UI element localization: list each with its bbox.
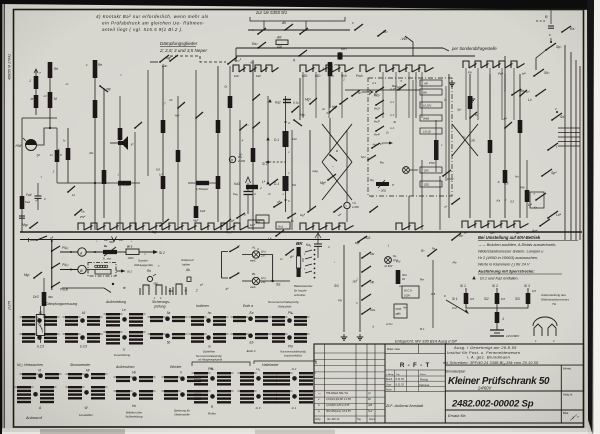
wire right channel 5 — [519, 74, 521, 218]
microphone M — [26, 140, 37, 151]
switch slash 240t — [239, 129, 241, 131]
switch Ra2 top — [257, 47, 259, 49]
switch Lo3 ladder — [533, 75, 535, 77]
contact group P — [194, 372, 208, 374]
wire zur-Ue bracket — [250, 17, 345, 21]
switch Ba2 top — [169, 60, 171, 62]
resistor Si2 — [495, 293, 500, 304]
meter W — [78, 265, 86, 273]
ground mid chain2 — [359, 334, 361, 337]
switch L4 mid2 — [275, 235, 277, 237]
node left 95 — [94, 182, 96, 184]
box WC6 — [402, 286, 419, 298]
resistor h 125 — [118, 181, 131, 185]
box Nu1 — [256, 215, 269, 223]
resistor 163 b — [161, 176, 166, 189]
resistor 10,15V — [420, 102, 442, 108]
lamp relay box — [403, 167, 410, 174]
bracket PNr — [192, 362, 250, 366]
jack symbol Ab — [176, 284, 182, 295]
wire lamp AL link — [242, 254, 252, 256]
wire right channel 1 — [448, 74, 450, 218]
switch chain mid 2 — [361, 271, 363, 273]
wire vert 230b — [229, 66, 231, 230]
node rail joint — [51, 240, 53, 242]
contact group R rufen — [194, 390, 208, 392]
switch q top — [298, 55, 300, 57]
switch bg2 — [159, 61, 161, 63]
wire top right link — [536, 20, 545, 22]
contact group Hs — [240, 372, 254, 374]
contact group b2/b2,5 — [22, 316, 35, 318]
jack comb row right — [462, 221, 468, 228]
switch slash 196t — [195, 117, 197, 119]
contact group iso — [191, 316, 204, 318]
arrow ka4 up — [315, 233, 321, 238]
resistor M left — [48, 92, 53, 108]
switch A2 mid — [329, 111, 331, 113]
resistor 253 — [251, 148, 256, 162]
wire left vert 104 — [103, 88, 105, 218]
contact group Vt — [22, 373, 36, 375]
arrow left col top — [34, 69, 38, 73]
battery BK contacts — [314, 249, 316, 251]
switch Hs1² — [375, 91, 377, 93]
switch slash 310t — [309, 103, 311, 105]
wire speaker link — [110, 142, 118, 144]
wire si bottom bus — [466, 304, 528, 308]
contact group Ir — [164, 376, 178, 378]
switch Ra4 topright — [561, 31, 563, 33]
ground right jack — [451, 80, 453, 83]
switch A4 mid — [285, 254, 287, 256]
switch R3 mid — [427, 255, 429, 257]
resistor right ch a — [468, 96, 473, 109]
switch slash 470t — [469, 117, 471, 119]
wire vert 292 — [291, 130, 293, 230]
wire vert 68 — [67, 128, 69, 183]
resistor 120a — [118, 128, 123, 140]
resistor left2 — [34, 95, 39, 108]
wire right jack drops — [465, 68, 467, 120]
switch Hue2 — [357, 241, 359, 243]
tube symbol — [534, 324, 542, 336]
switch PN II — [52, 263, 60, 268]
wire pnk — [435, 120, 437, 140]
jack symbol Ro b — [156, 285, 162, 295]
wire left long vert 163 — [162, 66, 164, 222]
jack row far combs — [463, 61, 469, 68]
arrow 6-1 — [446, 300, 468, 313]
capacitor Fa4 — [35, 195, 42, 197]
resistor 163 a — [161, 120, 166, 133]
contact group H2 — [276, 372, 290, 374]
node b chain — [285, 199, 287, 201]
top right cap B — [548, 25, 554, 27]
switch A1 253 — [252, 127, 254, 129]
switch mid 452b — [451, 203, 453, 205]
switch Li2 ladder — [535, 95, 537, 97]
wire X-cross mid b2 — [322, 162, 352, 200]
resistor Dr3 — [42, 292, 47, 306]
resistor 218 a — [216, 120, 221, 133]
wire vert 310 — [309, 130, 311, 210]
switch mid 370 — [369, 211, 371, 213]
resistor right 517 — [518, 120, 523, 133]
wire secondary bus — [20, 239, 330, 241]
contact group W stromw — [68, 386, 82, 388]
wire vert 409 — [408, 196, 410, 230]
wire fa4 — [37, 183, 39, 196]
node d chain — [285, 121, 287, 123]
wire vert 253 — [252, 60, 254, 230]
wire si1 drop — [465, 288, 467, 293]
switch Mg2b — [33, 277, 35, 279]
resistor Si3 — [526, 293, 531, 304]
wire left mid drop2 — [94, 118, 96, 230]
switch chain mid 1 — [361, 257, 363, 259]
wire top bus 2 — [236, 47, 443, 49]
note 60V line7 — [472, 276, 475, 279]
wire vert 240 — [239, 120, 241, 230]
resistor Nu1 mid — [276, 222, 290, 229]
resistor J7 left — [34, 76, 39, 89]
contact group PNa — [272, 316, 285, 318]
wire vert 347b — [346, 130, 348, 202]
switch Sp4 ladder — [541, 175, 543, 177]
switch Ah top — [284, 29, 286, 31]
contact group b3/b3,5 — [65, 316, 78, 318]
resistor right ch b — [488, 140, 493, 153]
wire mic link — [37, 128, 58, 145]
switch 135 — [134, 127, 136, 129]
wire vert 196 — [195, 70, 197, 206]
wire vert 148 — [147, 70, 149, 176]
jack comb row left — [78, 223, 84, 230]
switch fv2 — [351, 95, 353, 97]
wire vert 440 — [439, 176, 441, 230]
wire left col top — [35, 70, 37, 115]
lamp BL — [252, 277, 259, 284]
wire X-cross mid a1 — [322, 124, 352, 162]
resistor W5 left — [36, 315, 45, 336]
switch BI2 top — [377, 35, 379, 37]
resistor Re left — [48, 62, 53, 78]
wire ladder stub fan — [558, 127, 580, 129]
jack Pn4 comb — [360, 65, 366, 72]
resistor Fa5 comb — [194, 206, 199, 218]
wire meter W link — [60, 269, 78, 271]
capacitor Ka2 tri — [268, 99, 271, 102]
resistor bar left mid — [93, 60, 98, 78]
resistor 1/9,1Ω — [420, 128, 442, 134]
resistor Ka3 h — [246, 185, 258, 189]
wire left h link — [57, 182, 110, 184]
wire right channel 4 — [504, 74, 506, 218]
jack row M3/M2/W4 combs — [300, 65, 306, 72]
switch 68b — [67, 191, 69, 193]
wire vert 416 — [415, 72, 417, 118]
jack symbol Ro a — [147, 276, 152, 281]
capacitor Ka4 left — [244, 191, 253, 193]
wire vert 300 — [299, 78, 301, 120]
wire jack drops mid — [302, 72, 304, 118]
battery BK bar — [297, 247, 301, 256]
switch R mid — [329, 154, 331, 156]
wire Dr3 — [43, 278, 45, 292]
resistor Fa6 left — [55, 150, 60, 162]
resistor J mid — [328, 62, 333, 76]
switch slash 178t — [177, 107, 179, 109]
switch aI lamp — [229, 277, 231, 279]
contact group H3 — [240, 390, 254, 392]
table middle grid — [385, 353, 445, 355]
switch Ax4 ladder — [539, 225, 541, 227]
contact group 5a/5b — [150, 316, 163, 318]
resistor 4 vert — [495, 312, 500, 323]
wire si cap drop — [496, 323, 498, 330]
wire main bus — [20, 231, 582, 233]
contact group Hb — [116, 376, 130, 378]
resistor 218 b — [216, 176, 221, 189]
switch PNg2 — [442, 175, 444, 177]
table revision grid — [314, 344, 584, 423]
switch b25 bot — [221, 225, 223, 227]
wire pn3 line — [62, 287, 104, 289]
table right grid — [444, 344, 446, 423]
resistor 20A — [420, 167, 442, 173]
resistor (NW) — [420, 115, 442, 121]
photo edge right band — [587, 0, 594, 434]
capacitor left edge — [19, 215, 25, 217]
switch chain mid 4 — [361, 299, 363, 301]
wire relay box col — [412, 80, 414, 196]
switch Hg3 — [293, 119, 295, 121]
wire hue2 vert2 — [359, 252, 361, 332]
paper bottom margin — [2, 429, 588, 434]
wire right bus 3 — [575, 60, 577, 240]
wire lamp BL link — [242, 280, 252, 282]
wire meter A link — [60, 251, 78, 253]
wire Re drop — [49, 78, 51, 92]
resistor right 527 — [525, 190, 530, 202]
switch W3 mid — [451, 239, 453, 241]
contact group H1 — [276, 390, 290, 392]
switch sB top — [36, 239, 38, 241]
wire right bus 2 — [570, 52, 572, 240]
switch AB chain — [273, 206, 275, 208]
wire right channel 3 — [489, 74, 491, 218]
switch Hg2 — [339, 103, 341, 105]
box relay outline — [368, 78, 452, 196]
contact group Le/Li — [106, 313, 120, 315]
box meas W — [88, 263, 116, 277]
resistor AR top — [276, 40, 288, 45]
wire X-cross mid b1 — [322, 162, 352, 200]
resistor D-1 b — [266, 181, 269, 184]
wire ka4 — [317, 232, 319, 244]
capacitor Ka4 mid — [314, 243, 322, 245]
switch chain mid 3 — [361, 285, 363, 287]
wire vert 268 — [267, 96, 269, 184]
wire top left rail — [150, 61, 158, 63]
resistor Ka4 left edge — [20, 196, 25, 209]
wire M drop — [49, 108, 51, 128]
wire j mid2 — [329, 118, 331, 152]
ground right mid — [471, 96, 473, 99]
wire X-cross right a2 — [452, 124, 478, 156]
wire top drop 1 — [405, 36, 413, 56]
ground mid chain — [343, 334, 345, 337]
left margin strip line — [3, 4, 5, 428]
switch slash 253t — [252, 99, 254, 101]
photo edge left band — [0, 0, 2, 434]
speaker F — [118, 136, 128, 150]
wire mic top rail — [22, 117, 57, 119]
bracket Haltehebel — [254, 361, 316, 364]
switch L4 mid — [269, 184, 271, 186]
wire right bus 1 — [564, 45, 566, 240]
paper right margin — [594, 0, 600, 434]
resistor 230a — [228, 96, 233, 108]
lamp NL1 — [385, 257, 392, 264]
resistor h 196 — [196, 181, 209, 185]
wire si2 drop — [496, 288, 498, 293]
wire top left rail2 — [170, 56, 226, 62]
box NCB — [394, 304, 407, 318]
ground arrow Ka4 — [246, 177, 251, 183]
wire w5 left — [40, 306, 42, 315]
meter Ym — [344, 202, 350, 208]
resistor WG10 — [396, 270, 401, 284]
switch mg mid — [99, 85, 101, 87]
contact group A anlassruf — [17, 386, 31, 388]
resistor Ra meas — [103, 250, 117, 254]
switch Li4 ladder — [535, 199, 537, 201]
wire vert 120 — [119, 96, 121, 230]
contact group speisung — [164, 390, 178, 392]
resistor Wn — [420, 89, 442, 95]
wire right channel 2 — [469, 74, 471, 218]
lamp AL — [252, 251, 259, 258]
resistor D-1 a — [266, 137, 269, 140]
switch Mg4 — [327, 179, 329, 181]
resistor Si1 — [464, 293, 469, 304]
contact group Ho — [116, 390, 130, 392]
contact group Mr — [68, 373, 82, 375]
arrow Si2 a — [139, 251, 153, 253]
capacitor Ke7 — [339, 52, 341, 60]
wire top bus arrow — [443, 48, 449, 51]
wire j mid — [329, 76, 331, 108]
switch Hs3² — [375, 117, 377, 119]
switch f ladder — [547, 149, 549, 151]
resistor bar left mid2 — [93, 100, 98, 118]
switch Lo4 ladder — [547, 217, 549, 219]
switch PN III — [52, 282, 60, 287]
wire left edge channel — [21, 118, 23, 232]
switch Hs2² — [375, 104, 377, 106]
node mic — [49, 127, 51, 129]
switch Ms mid — [367, 159, 369, 161]
wire left vert 218 — [217, 66, 219, 222]
switch n4 mid — [333, 211, 335, 213]
meter A — [78, 248, 86, 256]
switch aT lamp — [229, 251, 231, 253]
switch Mg2 — [29, 227, 31, 229]
photo edge top band — [0, 0, 600, 10]
switch RB bottom — [236, 217, 238, 219]
capacitor battery 12V — [490, 329, 504, 331]
wire top bus 1 — [248, 29, 350, 31]
jack row right combs — [380, 65, 386, 72]
wire si3 drop — [527, 288, 529, 293]
resistor 178a — [176, 150, 181, 162]
wire jack drops mid2 — [382, 72, 384, 118]
wire X-cross right a1 — [452, 124, 478, 156]
wire hue2 vert — [343, 245, 345, 332]
wire left mid drop — [94, 78, 96, 100]
switch chain mid 5 — [361, 313, 363, 315]
pot Rg — [376, 182, 389, 186]
contact group Ea/Eb — [233, 316, 246, 318]
wire top bus 3 — [236, 55, 475, 57]
coil W3 meas — [126, 249, 139, 255]
switch TV mid — [371, 147, 373, 149]
switch slash 292t — [291, 111, 293, 113]
wire ladder link top — [536, 50, 546, 70]
switch hg4 mid — [307, 211, 309, 213]
wire left 57 — [56, 128, 58, 150]
jack comb row mid — [300, 223, 306, 230]
switch bg2 bot — [159, 225, 161, 227]
switch H1B bottom — [287, 217, 289, 219]
wire right bus 4 — [579, 66, 581, 240]
arrow Si2 b — [116, 270, 121, 272]
switch PN I — [52, 246, 60, 251]
wire vert 422 — [421, 160, 423, 230]
wire mid vert 433 — [432, 260, 434, 328]
resistor right ch c — [503, 170, 508, 183]
switch b25 — [227, 63, 229, 65]
wire relay box col2 — [445, 86, 447, 181]
wire lamp right vert — [272, 255, 274, 282]
wire si mid drop — [496, 304, 498, 322]
switch Bn2 topright — [511, 94, 513, 96]
switch c top — [354, 29, 356, 31]
resistor 68a — [66, 148, 71, 160]
wire vert 135 — [134, 132, 136, 230]
wire X-cross mid a2 — [322, 124, 352, 162]
resistor PNK vert — [434, 140, 439, 160]
switch Hs4² — [375, 130, 377, 132]
switch 75b — [74, 214, 76, 216]
wire PN rail — [51, 241, 53, 290]
box Ho4 comb — [248, 220, 264, 228]
wire lamp bracket — [221, 252, 223, 279]
meter Wv — [229, 156, 235, 162]
switch slash 520t — [519, 95, 521, 97]
switch Sp2 ladder — [545, 49, 547, 51]
switch slash 505t — [504, 127, 506, 129]
wire vert 178 — [177, 96, 179, 230]
switch So2 ladder — [551, 119, 553, 121]
wire vert chain 285 — [285, 96, 287, 212]
resistor left 104 — [102, 170, 107, 184]
